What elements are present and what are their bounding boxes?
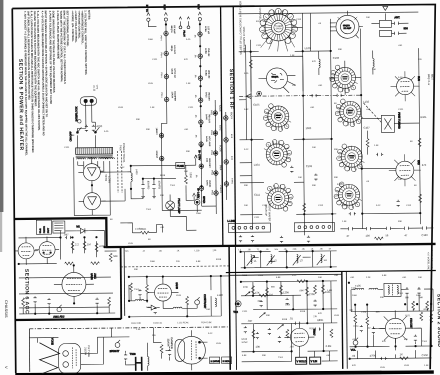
svg-text:1.5K: 1.5K: [290, 55, 295, 57]
svg-text:39K: 39K: [312, 185, 316, 187]
video resistors: [130, 282, 189, 314]
svg-text:270K: 270K: [309, 292, 315, 296]
secondary lead wires: [74, 157, 111, 215]
svg-text:FUSE: FUSE: [177, 164, 184, 168]
rectifier V400 5U4G section A: [78, 157, 105, 187]
sync extra labels: [241, 286, 333, 349]
svg-text:SOME VARIATIONS OF THE PEAK-TO: SOME VARIATIONS OF THE PEAK-TO-PEAK VOLT…: [51, 11, 56, 94]
svg-text:2.2M: 2.2M: [361, 312, 366, 314]
bottom adjustment boxes: [210, 357, 232, 364]
svg-text:C112: C112: [318, 205, 324, 207]
svg-text:10K: 10K: [312, 147, 316, 149]
svg-text:68K: 68K: [405, 297, 409, 299]
svg-text:470K: 470K: [423, 309, 429, 311]
svg-text:T101: T101: [170, 185, 176, 187]
wafer petals bottom row small caps: [239, 235, 310, 244]
svg-text:R118: R118: [256, 21, 262, 23]
AGC gated tube V110: [54, 265, 98, 303]
L-line contact strip right: [294, 222, 334, 231]
svg-text:PILOT: PILOT: [182, 30, 184, 37]
svg-text:1.5K: 1.5K: [136, 329, 141, 331]
svg-text:PIN5: PIN5: [211, 190, 213, 196]
svg-text:6AU8: 6AU8: [241, 338, 247, 341]
svg-text:6W6GT: 6W6GT: [155, 151, 157, 159]
svg-text:V HOLD: V HOLD: [297, 359, 307, 363]
svg-text:1.5K: 1.5K: [186, 83, 191, 85]
CRT label: [84, 345, 92, 357]
svg-text:L109: L109: [118, 107, 124, 109]
svg-text:1000: 1000: [148, 39, 154, 41]
svg-text:SET FOR NORMAL PICTURE.: SET FOR NORMAL PICTURE.: [66, 10, 70, 46]
svg-text:1.5K: 1.5K: [150, 107, 155, 109]
vert osc tube V109: [284, 323, 316, 351]
svg-text:1000: 1000: [416, 295, 422, 297]
svg-text:RF AMP: RF AMP: [343, 27, 351, 30]
svg-text:6BQ7A: 6BQ7A: [230, 112, 233, 120]
svg-text:39K: 39K: [136, 119, 140, 121]
heater supply terminal B: [197, 4, 202, 24]
svg-text:1000: 1000: [150, 261, 156, 263]
video section top tick labels: [125, 250, 217, 253]
svg-text:R144 3.9K: R144 3.9K: [201, 322, 212, 324]
video bottom label row: [131, 321, 212, 325]
svg-text:C121: C121: [152, 59, 158, 61]
svg-text:39K: 39K: [262, 355, 266, 357]
svg-text:10K: 10K: [318, 277, 322, 279]
svg-text:10K: 10K: [244, 205, 248, 207]
svg-text:C150: C150: [422, 353, 429, 357]
svg-text:6X8: 6X8: [417, 160, 421, 165]
fine tuning trimmer: [381, 112, 401, 132]
heater chain bus 1: [160, 23, 167, 210]
svg-text:1M: 1M: [87, 242, 91, 246]
svg-text:PIN5: PIN5: [210, 110, 212, 116]
RF wiring verticals: [245, 12, 420, 236]
svg-text:FUSIBLE: FUSIBLE: [135, 227, 146, 231]
svg-text:10K: 10K: [298, 177, 302, 179]
svg-text:BRIGHT: BRIGHT: [110, 349, 120, 353]
heater chain 1 glyphs: [154, 25, 177, 162]
AGC keyer tube VA: [15, 237, 38, 265]
svg-text:2.2K: 2.2K: [366, 277, 371, 279]
dial lamps wires: [120, 216, 196, 233]
AGC cap C60: [63, 232, 72, 239]
svg-text:1000: 1000: [146, 307, 152, 309]
svg-text:21EP4: 21EP4: [219, 185, 223, 193]
svg-text:R118: R118: [216, 259, 222, 261]
svg-text:10K: 10K: [256, 345, 261, 349]
heater supply terminal A: [163, 4, 168, 24]
svg-text:1.5K: 1.5K: [374, 145, 379, 147]
svg-text:6.3V: 6.3V: [197, 4, 201, 10]
svg-text:PILOT LAMP: PILOT LAMP: [177, 198, 181, 214]
svg-text:2.2: 2.2: [75, 242, 79, 246]
svg-text:6CB6: 6CB6: [204, 48, 206, 54]
RF amp tube V1A top view: [330, 11, 363, 39]
svg-text:2ND VIF: 2ND VIF: [207, 48, 209, 57]
svg-text:47K: 47K: [382, 341, 386, 343]
B+ output arrows: [194, 150, 202, 165]
AC interlock plug: [74, 97, 97, 122]
svg-text:C121: C121: [254, 217, 260, 219]
svg-text:1ST VIF: 1ST VIF: [207, 26, 209, 35]
svg-text:PIN5: PIN5: [210, 150, 212, 156]
power transformer T400 primary: [76, 148, 113, 155]
svg-text:40MFD: 40MFD: [157, 181, 161, 190]
svg-text:YOKE: YOKE: [50, 338, 54, 346]
wafer SW1G rear: [334, 182, 362, 210]
svg-text:6CB6: 6CB6: [204, 70, 206, 76]
bottom black band: [15, 369, 434, 375]
svg-text:.01: .01: [289, 316, 293, 320]
svg-text:C121: C121: [242, 311, 248, 313]
svg-text:3-12: 3-12: [244, 149, 249, 151]
IF slug coil 4: [317, 254, 328, 265]
svg-text:1.5K: 1.5K: [424, 365, 429, 367]
B+ bus wires: [100, 165, 176, 201]
svg-text:C109: C109: [306, 164, 313, 168]
svg-text:100K: 100K: [285, 304, 291, 306]
svg-text:1200: 1200: [189, 172, 193, 178]
tube V4 right lower: [389, 154, 421, 186]
svg-text:6BQ7A: 6BQ7A: [170, 25, 173, 33]
svg-text:L109: L109: [404, 365, 410, 367]
RF misc labels: [253, 45, 428, 197]
svg-text:NOTES:: NOTES:: [87, 10, 91, 20]
svg-text:SECTION 5 POWER and HEATER: SECTION 5 POWER and HEATER: [17, 59, 24, 151]
svg-text:100: 100: [365, 234, 370, 238]
video section left double border: [229, 246, 230, 370]
svg-text:10K: 10K: [184, 171, 188, 173]
svg-text:6.8K: 6.8K: [276, 277, 281, 279]
svg-text:TP2: TP2: [233, 310, 238, 314]
svg-text:R118: R118: [242, 275, 248, 277]
mixer wafer V2: [330, 65, 358, 93]
svg-text:.6A: .6A: [194, 94, 197, 98]
svg-text:V: V: [4, 366, 9, 369]
rectifier V400 5U4G section B: [78, 187, 105, 215]
svg-text:47K: 47K: [255, 291, 260, 295]
svg-text:C140 .01: C140 .01: [153, 323, 163, 325]
svg-text:L118: L118: [195, 250, 201, 252]
sync test point: [233, 301, 241, 314]
L-line capacitor row right: [340, 226, 433, 240]
svg-text:L120: L120: [217, 293, 223, 297]
svg-text:47K: 47K: [312, 61, 316, 63]
transformer secondary windings: [77, 158, 86, 159]
svg-text:270: 270: [422, 163, 427, 167]
svg-text:300: 300: [403, 26, 408, 30]
svg-text:PHOTO: PHOTO: [44, 226, 46, 234]
svg-text:INTERLOCK: INTERLOCK: [74, 106, 78, 121]
svg-text:.6A: .6A: [195, 174, 198, 178]
svg-text:39K: 39K: [266, 315, 270, 317]
svg-text:3RD VIF: 3RD VIF: [207, 70, 209, 79]
oscillator tube socket circle: [257, 68, 296, 96]
svg-text:47K: 47K: [184, 59, 188, 61]
svg-text:47K: 47K: [170, 209, 174, 211]
svg-text:CHANNEL: CHANNEL: [258, 8, 262, 21]
B+ terminal circle 1: [145, 5, 156, 27]
scan edge shadow left: [0, 0, 3, 212]
svg-text:AGC ADJ: AGC ADJ: [53, 314, 65, 318]
svg-text:AGC AMP: AGC AMP: [208, 136, 211, 147]
heater chain 2 glyphs: [198, 26, 212, 192]
svg-text:L104: L104: [254, 163, 260, 167]
svg-text:A.C.: A.C.: [95, 84, 99, 89]
notes text block: [23, 10, 92, 156]
gang line arrow: [246, 94, 251, 99]
svg-text:6SN7: 6SN7: [218, 125, 222, 132]
svg-text:120K: 120K: [283, 290, 289, 294]
svg-text:PIN4: PIN4: [160, 53, 162, 59]
svg-text:47K: 47K: [352, 365, 356, 367]
svg-text:6AU8: 6AU8: [170, 68, 173, 74]
svg-text:470K: 470K: [243, 287, 249, 289]
svg-text:56K: 56K: [271, 286, 275, 288]
video wiring: [129, 276, 229, 317]
filter cap C401B: [152, 179, 161, 198]
picture tube area boundary: [29, 327, 229, 329]
svg-text:VID DET: VID DET: [207, 92, 209, 101]
boost terminal pair: [179, 17, 190, 38]
CRT socket: [58, 343, 80, 373]
IF slug coil 3: [293, 254, 304, 265]
sound extra labels: [349, 287, 429, 330]
svg-text:6T8 DET: 6T8 DET: [409, 318, 413, 329]
AGC diode M1: [76, 224, 89, 233]
wire heater feed across: [162, 206, 216, 215]
svg-text:L105: L105: [216, 343, 222, 345]
svg-text:47K: 47K: [318, 313, 322, 315]
svg-text:10K: 10K: [366, 17, 370, 19]
tuner shield box: [251, 56, 303, 91]
gang line: [239, 95, 361, 96]
svg-text:39K: 39K: [134, 269, 138, 271]
svg-text:3-12: 3-12: [376, 205, 381, 207]
svg-text:FRONT WAFER: FRONT WAFER: [268, 203, 272, 222]
svg-text:RF AMP: RF AMP: [173, 25, 176, 34]
svg-text:R101: R101: [420, 115, 427, 119]
IF slug coil 2: [267, 254, 278, 265]
svg-text:1000: 1000: [196, 213, 202, 215]
svg-text:39K: 39K: [186, 151, 190, 153]
sound takeoff coil: [351, 283, 433, 312]
svg-text:6.8K: 6.8K: [196, 261, 201, 263]
svg-text:.6A: .6A: [194, 74, 197, 78]
svg-text:6CD6: 6CD6: [219, 145, 223, 152]
svg-text:5%: 5%: [275, 249, 278, 251]
svg-text:80MFD: 80MFD: [146, 181, 150, 190]
sound wiring top: [351, 287, 433, 312]
AGC pots: [53, 305, 65, 319]
bottom mid caps: [124, 344, 171, 360]
svg-text:L105: L105: [128, 243, 134, 245]
svg-text:10K: 10K: [372, 69, 376, 71]
svg-text:10K: 10K: [418, 277, 422, 279]
svg-text:3-12: 3-12: [120, 167, 125, 169]
svg-text:FACT: FACT: [47, 227, 50, 233]
wafer SW1F rear: [265, 183, 293, 211]
svg-text:B+ 275V: B+ 275V: [198, 150, 202, 160]
svg-text:H DRIVE: H DRIVE: [211, 361, 220, 363]
svg-text:6AL5: 6AL5: [205, 92, 208, 98]
wafer SW1E: [337, 144, 365, 172]
section 6 right border: [120, 247, 123, 319]
sound wiring mid: [349, 304, 431, 351]
svg-text:T101: T101: [278, 357, 284, 359]
svg-text:6.3V: 6.3V: [163, 5, 167, 11]
svg-text:SYNC: SYNC: [241, 342, 248, 344]
B+ resistor R400: [184, 165, 193, 193]
yoke zigzag: [39, 338, 59, 374]
svg-text:SND DET: SND DET: [208, 158, 210, 168]
svg-text:POWER TRANS.: POWER TRANS.: [122, 143, 126, 163]
svg-text:68K: 68K: [419, 297, 423, 299]
damper tube V113: [165, 330, 207, 370]
svg-text:L121 PEAK: L121 PEAK: [177, 321, 189, 324]
svg-text:6BZ7: 6BZ7: [430, 74, 434, 81]
line cord wires: [77, 103, 95, 133]
sound section left double border: [341, 271, 344, 368]
bottom mid wiring: [125, 327, 169, 364]
svg-text:.6A: .6A: [194, 134, 197, 138]
svg-text:6SN7: 6SN7: [312, 329, 316, 336]
svg-text:47K: 47K: [349, 310, 353, 312]
svg-text:4700: 4700: [96, 124, 102, 128]
AGC resistors: [71, 241, 79, 250]
svg-text:6.8K: 6.8K: [70, 135, 75, 137]
svg-text:L105: L105: [380, 367, 386, 369]
svg-text:SECTION 1 RF: SECTION 1 RF: [228, 69, 234, 110]
heater chain bus 2: [200, 23, 202, 206]
svg-text:PIN4: PIN4: [160, 93, 162, 99]
svg-text:6BQ6: 6BQ6: [170, 45, 172, 52]
svg-text:T101: T101: [398, 293, 404, 295]
svg-text:5-25: 5-25: [244, 73, 249, 75]
svg-text:C161: C161: [353, 326, 359, 328]
svg-text:CONTRAST: CONTRAST: [203, 294, 207, 309]
line cap C400: [85, 125, 88, 132]
svg-text:PIN4: PIN4: [160, 73, 162, 79]
svg-text:T101: T101: [134, 289, 140, 291]
fuse box: [176, 162, 196, 168]
svg-text:.047: .047: [63, 232, 69, 236]
svg-text:B+ TO: B+ TO: [145, 5, 149, 13]
svg-text:1K: 1K: [400, 352, 403, 356]
svg-text:SPKR: SPKR: [202, 196, 206, 203]
section 5/6 staircase divider: [14, 215, 435, 248]
svg-text:C121: C121: [188, 107, 194, 109]
svg-text:5-25: 5-25: [186, 39, 191, 41]
svg-text:C112: C112: [258, 275, 264, 277]
svg-text:6AU6: 6AU6: [205, 136, 208, 142]
svg-text:ANT.: ANT.: [394, 15, 400, 19]
svg-text:5-25: 5-25: [104, 131, 109, 133]
tube type label right edge: [427, 74, 435, 85]
svg-text:39K: 39K: [244, 185, 248, 187]
fine tuning shaft: [363, 102, 381, 122]
svg-text:1B3GT: 1B3GT: [155, 128, 157, 136]
svg-text:.02: .02: [352, 354, 356, 358]
svg-text:39K: 39K: [398, 221, 402, 223]
svg-text:PIN5: PIN5: [210, 130, 212, 136]
section 6 bottom border: [15, 319, 121, 320]
sound bottom row: [350, 342, 432, 359]
sound resistors left: [354, 315, 375, 335]
sync caps: [243, 298, 317, 336]
RF coils between stages: [319, 51, 321, 75]
video detector diode: [147, 305, 160, 310]
AGC note box 2: [53, 221, 65, 233]
wafer SW1D: [264, 139, 292, 167]
fuse resistor lower: [132, 227, 156, 235]
svg-text:22K: 22K: [293, 249, 297, 251]
svg-text:39K: 39K: [338, 49, 342, 51]
svg-text:3-12: 3-12: [398, 77, 403, 79]
svg-text:C112: C112: [406, 205, 412, 207]
sync resistors: [251, 280, 332, 339]
svg-text:DAMPER: DAMPER: [170, 337, 174, 348]
svg-text:6AH6: 6AH6: [175, 282, 179, 289]
svg-text:SECTION 2 SOUND: SECTION 2 SOUND: [436, 294, 440, 348]
svg-text:VID OUT: VID OUT: [208, 114, 210, 124]
svg-text:27K: 27K: [313, 316, 317, 318]
damper label: [166, 337, 174, 348]
channel wafer SW1A front: [258, 7, 297, 51]
width coil: [215, 293, 223, 307]
svg-text:V LIN: V LIN: [311, 359, 318, 363]
sync bottom wiring: [242, 351, 338, 362]
svg-text:C103: C103: [333, 56, 340, 60]
svg-text:C111: C111: [254, 193, 260, 197]
AGC wiring: [18, 230, 117, 307]
svg-text:6BQ7A: 6BQ7A: [271, 75, 278, 78]
svg-text:C105: C105: [253, 103, 260, 107]
svg-text:C112: C112: [296, 19, 302, 21]
svg-text:1000: 1000: [305, 126, 311, 130]
svg-text:DAMPER: DAMPER: [173, 91, 176, 101]
wafer center marks: [274, 110, 355, 200]
svg-text:10K: 10K: [398, 179, 402, 181]
IF/sync horizontal divider: [226, 271, 436, 273]
sync extra caps: [255, 285, 321, 343]
heater chain bus 3: [215, 100, 216, 208]
sound right margin text: [427, 250, 434, 272]
tuner heater chain in gap: [224, 112, 234, 200]
svg-text:C120: C120: [421, 233, 428, 237]
svg-text:L109: L109: [176, 295, 182, 297]
vert hold controls: [296, 357, 307, 364]
svg-text:6.8K: 6.8K: [242, 355, 247, 357]
svg-text:C107: C107: [363, 126, 370, 130]
svg-text:.0047: .0047: [299, 290, 305, 292]
IF top tick labels: [239, 248, 332, 251]
svg-text:SECTION 6 AGC: SECTION 6 AGC: [23, 269, 29, 314]
svg-text:L102: L102: [363, 100, 369, 104]
audio out resistors right: [414, 312, 433, 342]
svg-text:.6A: .6A: [194, 114, 197, 118]
svg-text:.6A: .6A: [194, 34, 197, 38]
svg-text:L106: L106: [337, 182, 343, 186]
svg-text:AGC: AGC: [93, 273, 97, 279]
svg-text:FINE TUNING: FINE TUNING: [397, 112, 401, 129]
svg-text:L105: L105: [148, 83, 154, 85]
svg-text:SW1A: SW1A: [276, 27, 283, 30]
svg-text:L100: L100: [305, 46, 311, 50]
heater chain 3 glyphs: [213, 105, 223, 196]
RF section left double border: [221, 6, 223, 245]
